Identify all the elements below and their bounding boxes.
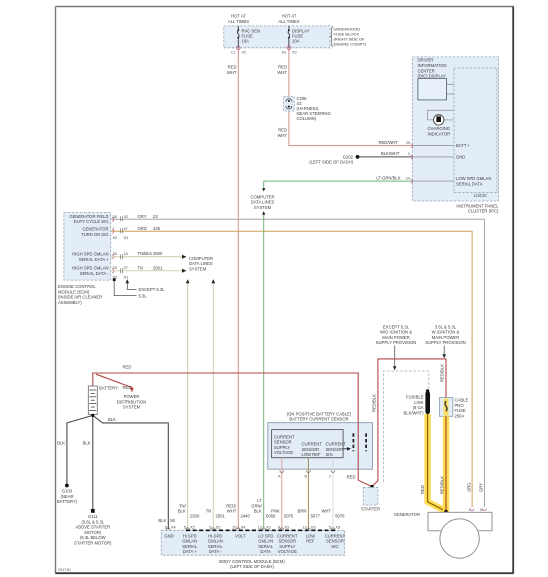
svg-text:G103: G103 [62,489,73,494]
svg-text:LT: LT [257,498,262,503]
svg-text:33: 33 [113,252,117,256]
svg-text:TN/: TN/ [179,503,187,508]
svg-text:BATT +: BATT + [456,143,470,148]
svg-text:(5.3L BELOW: (5.3L BELOW [80,535,106,540]
svg-text:SERIAL: SERIAL [182,544,198,549]
svg-text:WHT: WHT [227,70,237,75]
svg-text:PRO: PRO [455,403,465,408]
svg-text:ALL TIMES: ALL TIMES [278,19,299,24]
svg-text:SENSOR: SENSOR [302,447,320,452]
svg-text:PNK: PNK [271,509,280,514]
svg-text:VOLTAGE: VOLTAGE [278,549,297,554]
svg-text:X2: X2 [242,51,247,55]
svg-text:HI SPD: HI SPD [183,533,197,538]
svg-text:WHT: WHT [277,70,287,75]
svg-text:CURRENT: CURRENT [302,442,323,447]
svg-text:CURRENT: CURRENT [325,533,346,538]
svg-text:CENTER: CENTER [418,68,435,73]
svg-text:DRIVER: DRIVER [418,58,434,63]
svg-text:RED/BLK: RED/BLK [439,364,444,382]
svg-text:50: 50 [170,518,175,523]
svg-text:BLK: BLK [158,518,166,523]
svg-text:33: 33 [113,266,117,270]
svg-text:SUPPLY: SUPPLY [274,445,290,450]
svg-text:(ON POSITIVE BATTERY CABLE): (ON POSITIVE BATTERY CABLE) [287,411,352,416]
svg-text:2: 2 [408,152,410,156]
svg-text:CHARGING: CHARGING [428,126,451,131]
svg-text:DATA +: DATA + [183,549,197,554]
svg-text:FUSE: FUSE [455,408,466,413]
svg-text:12: 12 [302,526,306,530]
svg-text:RED/BLK: RED/BLK [371,394,376,412]
svg-text:LINK: LINK [414,400,424,405]
svg-text:7: 7 [113,227,115,231]
svg-text:(LEFT SIDE OF DASH): (LEFT SIDE OF DASH) [309,160,353,165]
svg-text:WHT: WHT [277,133,287,138]
svg-text:39: 39 [406,141,410,145]
svg-text:250A: 250A [455,413,465,418]
svg-text:W/O IGNITION &: W/O IGNITION & [380,330,412,335]
svg-text:LOW: LOW [306,533,316,538]
svg-text:EXCEPT 5.3L: EXCEPT 5.3L [139,287,166,292]
svg-text:RED/: RED/ [226,503,237,508]
svg-text:RED: RED [228,65,237,70]
svg-text:GMLAN: GMLAN [258,539,273,544]
svg-text:BLK/WHT: BLK/WHT [381,151,400,156]
svg-text:MAIN POWER: MAIN POWER [432,335,459,340]
svg-text:2501: 2501 [153,265,163,270]
svg-text:COLUMN): COLUMN) [297,116,317,121]
svg-text:60: 60 [282,51,286,55]
svg-text:ENGINE COMPT): ENGINE COMPT) [334,42,367,47]
svg-text:CLUSTER (IPC): CLUSTER (IPC) [468,209,499,214]
svg-text:BODY CONTROL MODULE (BCM): BODY CONTROL MODULE (BCM) [219,559,285,564]
svg-text:SENSOR: SENSOR [326,447,344,452]
svg-text:HI-SPD: HI-SPD [208,533,222,538]
svg-text:(INSIDE AIR CLEANER: (INSIDE AIR CLEANER [58,295,102,300]
svg-text:LOGIC: LOGIC [474,193,487,198]
svg-text:EXCEPT 5.3L: EXCEPT 5.3L [383,324,410,329]
svg-text:DATA -: DATA - [209,549,222,554]
svg-text:X2: X2 [113,236,118,240]
svg-text:RED: RED [420,485,425,494]
svg-text:X2: X2 [266,526,271,530]
svg-text:SYSTEM: SYSTEM [189,267,207,272]
svg-text:X2: X2 [216,526,221,530]
svg-text:BLK: BLK [254,509,262,514]
svg-text:(3.6L & 5.3L: (3.6L & 5.3L [81,519,104,524]
svg-text:STARTER: STARTER [361,506,380,511]
svg-text:GENERATOR: GENERATOR [394,512,420,517]
svg-text:W IGNITION &: W IGNITION & [432,330,460,335]
svg-text:HIGH SPD GMLAN: HIGH SPD GMLAN [72,252,108,257]
svg-text:L: L [469,508,471,512]
svg-text:SERIAL DATA +: SERIAL DATA + [79,257,109,262]
svg-text:(NEAR: (NEAR [60,494,73,499]
svg-text:2500: 2500 [153,251,163,256]
svg-text:COMPUTER: COMPUTER [189,256,213,261]
svg-text:2500: 2500 [190,513,200,518]
svg-text:10: 10 [232,526,236,530]
svg-text:ORG: ORG [138,226,148,231]
svg-text:GMLAN: GMLAN [208,539,223,544]
svg-text:DISTRIBUTION: DISTRIBUTION [117,399,147,404]
svg-text:SIG: SIG [331,544,338,549]
svg-text:INFORMATION: INFORMATION [418,63,447,68]
svg-text:X3: X3 [335,526,340,530]
svg-text:DUTY CYCLE SIG: DUTY CYCLE SIG [74,219,109,224]
svg-text:BLK: BLK [178,509,186,514]
svg-text:MAIN POWER: MAIN POWER [382,335,409,340]
svg-text:ALL TIMES: ALL TIMES [228,19,249,24]
svg-text:23: 23 [153,214,158,219]
svg-text:GRY: GRY [479,483,484,492]
svg-text:X2: X2 [190,526,195,530]
svg-text:BLK: BLK [108,417,116,422]
svg-text:26: 26 [113,215,117,219]
svg-text:LOW REF: LOW REF [302,452,322,457]
svg-text:TN/BLK: TN/BLK [138,251,153,256]
svg-text:X4: X4 [171,526,176,530]
svg-text:DATA LINES: DATA LINES [251,200,275,205]
svg-text:GND: GND [164,533,173,538]
svg-text:GENERATOR: GENERATOR [82,227,108,232]
svg-text:SERIAL DATA -: SERIAL DATA - [80,271,109,276]
svg-text:TURN ON SIG: TURN ON SIG [81,232,108,237]
svg-text:INDICATOR: INDICATOR [427,132,450,137]
svg-text:GND: GND [456,155,465,160]
svg-text:SYSTEM: SYSTEM [254,205,272,210]
svg-text:VOLTAGE: VOLTAGE [274,450,293,455]
svg-text:32: 32 [124,215,128,219]
svg-text:SENSOR: SENSOR [278,539,296,544]
svg-text:5075: 5075 [284,513,294,518]
svg-text:HOT AT: HOT AT [282,14,297,19]
svg-text:RED: RED [123,365,132,370]
svg-text:BLK: BLK [57,441,65,446]
svg-text:GRY: GRY [138,214,147,219]
svg-text:BATTERY CURRENT SENSOR: BATTERY CURRENT SENSOR [289,417,348,422]
svg-text:INSTRUMENT PANEL: INSTRUMENT PANEL [456,203,499,208]
svg-text:RED/BLK: RED/BLK [440,476,445,494]
svg-text:24: 24 [406,176,410,180]
svg-text:GRN/: GRN/ [251,503,262,508]
svg-text:X4: X4 [241,526,246,530]
svg-text:LT-GRN/BLK: LT-GRN/BLK [376,175,400,180]
svg-text:POWER: POWER [124,394,140,399]
svg-text:RED: RED [123,385,132,390]
svg-text:HOT AT: HOT AT [231,14,246,19]
svg-text:TN: TN [138,265,144,270]
svg-text:DATA: DATA [260,549,271,554]
svg-text:12: 12 [258,526,262,530]
svg-text:X3: X3 [292,51,297,55]
svg-text:M: M [480,508,483,512]
svg-text:BLK: BLK [83,441,91,446]
svg-text:COMPUTER: COMPUTER [251,194,275,199]
svg-text:WHT: WHT [227,509,237,514]
svg-text:BLK/WHT): BLK/WHT) [403,411,424,416]
svg-text:MODULE (ECM): MODULE (ECM) [58,289,90,294]
svg-text:SENSOR: SENSOR [326,539,344,544]
svg-text:VOLT: VOLT [235,533,246,538]
svg-text:2501: 2501 [216,513,226,518]
svg-text:X3: X3 [311,526,316,530]
svg-text:GMLAN: GMLAN [182,539,197,544]
svg-text:SYSTEM: SYSTEM [123,405,141,410]
svg-text:LOW SPD GMLAN: LOW SPD GMLAN [456,176,491,181]
svg-text:47: 47 [124,227,128,231]
svg-text:DATA LINES: DATA LINES [189,261,213,266]
svg-text:LO SPD: LO SPD [258,533,273,538]
svg-text:SERIAL: SERIAL [208,544,224,549]
svg-text:X1: X1 [124,236,129,240]
svg-text:SERIAL DATA: SERIAL DATA [456,181,483,186]
svg-text:10A: 10A [292,38,300,43]
svg-text:CURRENT: CURRENT [277,533,298,538]
svg-text:GENERATOR FIELD: GENERATOR FIELD [69,214,108,219]
svg-text:C: C [329,475,332,479]
svg-text:5078: 5078 [335,513,345,518]
svg-text:RED: RED [278,65,287,70]
svg-text:CABLE: CABLE [455,398,469,403]
svg-text:SUPPLY: SUPPLY [279,544,295,549]
svg-text:G111: G111 [88,514,98,519]
svg-text:SUPPLY PROVISION: SUPPLY PROVISION [425,340,466,345]
svg-text:X3: X3 [284,526,289,530]
svg-text:RED/WHT: RED/WHT [378,140,398,145]
svg-text:RED: RED [278,128,287,133]
svg-text:27: 27 [124,266,128,270]
svg-text:REF: REF [306,539,315,544]
svg-text:RED: RED [347,474,356,479]
svg-text:SENSOR: SENSOR [274,440,292,445]
svg-text:TN: TN [206,509,212,514]
svg-text:201790: 201790 [58,568,71,572]
svg-text:C1: C1 [231,51,236,55]
svg-text:BATTERY): BATTERY) [57,499,78,504]
svg-text:ENGINE CONTROL: ENGINE CONTROL [58,284,96,289]
svg-text:BATTERY: BATTERY [99,385,118,390]
svg-text:MOTOR): MOTOR) [84,530,102,535]
svg-text:3.6L & 5.3L: 3.6L & 5.3L [435,324,457,329]
svg-text:CURRENT: CURRENT [274,434,295,439]
svg-text:CURRENT: CURRENT [326,442,347,447]
svg-text:STARTER MOTOR): STARTER MOTOR) [74,541,112,546]
svg-text:SUPPLY PROVISION: SUPPLY PROVISION [376,340,417,345]
svg-text:(LEFT SIDE OF DASH): (LEFT SIDE OF DASH) [230,564,274,569]
svg-text:2440: 2440 [241,513,251,518]
svg-text:ASSEMBLY): ASSEMBLY) [58,300,82,305]
svg-text:24: 24 [124,252,128,256]
svg-text:ABOVE STARTER: ABOVE STARTER [75,525,110,530]
svg-text:SIG: SIG [326,452,333,457]
svg-text:225: 225 [153,226,161,231]
svg-text:ORG: ORG [466,482,471,492]
svg-text:(DIC) DISPLAY: (DIC) DISPLAY [418,74,447,79]
svg-text:BRN: BRN [298,509,307,514]
svg-text:5060: 5060 [266,513,276,518]
svg-text:HIGH SPD GMLAN: HIGH SPD GMLAN [72,266,108,271]
svg-text:5.3L: 5.3L [139,293,148,298]
svg-text:FUSIBLE: FUSIBLE [406,395,424,400]
svg-text:WHT: WHT [321,509,331,514]
svg-text:5077: 5077 [311,513,321,518]
svg-text:(8 GA: (8 GA [413,405,424,410]
svg-text:SERIAL: SERIAL [258,544,274,549]
svg-text:G202: G202 [343,154,354,159]
svg-text:X1: X1 [124,275,129,279]
svg-text:10A: 10A [242,38,250,43]
